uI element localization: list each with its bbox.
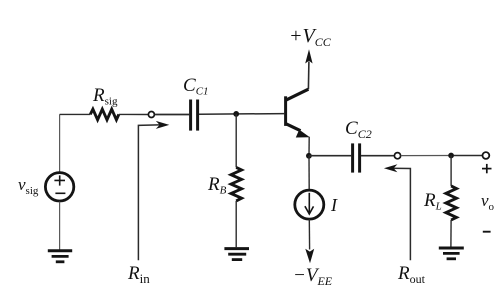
svg-text:−VEE: −VEE (293, 265, 333, 288)
wire emitter down to node (308, 137, 310, 156)
voltage source v_sig (45, 173, 73, 201)
terminal right (open circle) (483, 152, 490, 159)
wire top-left horizontal to R_sig (60, 113, 91, 115)
terminal output node (open circle) (394, 153, 400, 159)
wire node down to R_L (450, 156, 452, 186)
label - (output) (483, 231, 491, 233)
svg-text:CC1: CC1 (183, 75, 209, 98)
resistor R_sig (90, 109, 119, 120)
transistor Q1 base bar (284, 96, 287, 126)
node at R_B junction (233, 111, 239, 117)
svg-text:Rin: Rin (127, 263, 150, 286)
resistor R_B (231, 167, 242, 201)
wire left vertical from top wire to v_sig (59, 114, 61, 171)
wire node down to current source (308, 156, 310, 190)
wire R_B to ground (235, 201, 237, 247)
ground (v_sig) (48, 251, 72, 262)
R_out indicator arrow (384, 164, 411, 260)
resistor R_L (446, 186, 457, 220)
transistor emitter diagonal with arrowhead (286, 124, 310, 138)
svg-text:RB: RB (207, 174, 227, 197)
wire C_C1 to base (through node) (199, 113, 284, 116)
node at emitter/output junction (306, 153, 312, 159)
wire terminal to C_C1 (155, 114, 190, 116)
ground (R_L) (439, 248, 464, 259)
svg-text:I: I (330, 195, 338, 215)
R_in indicator arrow (138, 121, 169, 260)
capacitor C_C1 (191, 100, 198, 131)
wire R_L to ground (450, 220, 452, 247)
capacitor C_C2 (353, 143, 360, 172)
wire current source down (308, 219, 310, 249)
svg-text:vo: vo (481, 191, 495, 213)
label + (output) (482, 164, 492, 173)
arrow down to -V_EE (305, 249, 314, 263)
wire v_sig to ground (59, 202, 61, 250)
node at R_L junction (448, 153, 454, 159)
wire R_sig to input terminal (119, 113, 148, 115)
transistor collector diagonal (286, 89, 309, 100)
svg-text:vsig: vsig (18, 175, 39, 197)
wire node to C_C2 (309, 155, 351, 157)
wire R_L node to right terminal (454, 155, 483, 157)
terminal input node (open circle) (148, 112, 154, 118)
svg-text:Rout: Rout (397, 263, 426, 286)
wire C_C2 to output terminal (361, 155, 394, 157)
svg-text:+VCC: +VCC (289, 25, 332, 49)
current source I (295, 190, 324, 219)
wire output terminal to R_L node (401, 155, 449, 157)
svg-text:RL: RL (423, 190, 442, 213)
wire collector up with arrow to +V_CC (305, 49, 312, 89)
ground (R_B) (224, 249, 249, 260)
svg-text:Rsig: Rsig (92, 85, 118, 108)
svg-text:CC2: CC2 (345, 118, 372, 141)
wire node down to R_B (235, 114, 237, 167)
